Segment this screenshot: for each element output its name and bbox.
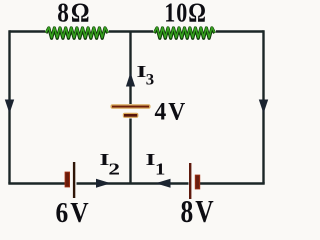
battery B3 4V short plate	[123, 113, 139, 118]
current arrow I3 (up)	[126, 73, 135, 87]
label I2	[100, 150, 110, 169]
label 4V	[155, 98, 188, 126]
battery B1 6V long plate	[73, 162, 75, 198]
wire bottom-right segment	[200, 182, 265, 184]
current arrow I2 (right)	[96, 179, 111, 188]
label 8V	[181, 196, 216, 230]
svg-text:4V: 4V	[155, 98, 188, 126]
label 10 ohm	[164, 0, 206, 28]
wire middle vertical upper	[129, 32, 131, 105]
battery B1 6V short plate	[65, 172, 70, 187]
svg-text:8Ω: 8Ω	[57, 0, 91, 28]
wire bottom-left segment	[8, 182, 65, 184]
wire top-middle segment	[109, 30, 153, 32]
resistor R1 8ohm zigzag	[46, 27, 108, 38]
label I3	[137, 62, 147, 81]
svg-text:3: 3	[146, 70, 154, 89]
svg-text:8V: 8V	[181, 196, 216, 228]
wire top-right segment	[216, 30, 264, 32]
battery B2 8V short plate	[195, 175, 200, 189]
label 8 ohm	[57, 0, 91, 28]
wire left vertical	[8, 30, 10, 183]
wire right vertical	[262, 30, 264, 183]
label 6V	[56, 197, 91, 229]
current arrow left branch (down)	[5, 100, 14, 114]
battery B3 4V long plate	[111, 104, 151, 108]
resistor R2 10ohm zigzag	[154, 27, 214, 38]
svg-text:6V: 6V	[56, 197, 91, 228]
label I1	[146, 150, 156, 169]
svg-text:1: 1	[155, 160, 165, 179]
wire top-left segment	[10, 30, 46, 32]
current arrow right branch (down)	[259, 100, 268, 114]
wire middle vertical lower	[129, 119, 131, 184]
svg-text:2: 2	[108, 160, 120, 178]
wire bottom-middle segment	[77, 182, 189, 184]
current arrow I1 (left)	[156, 179, 171, 188]
battery B2 8V long plate	[189, 163, 191, 199]
svg-text:I: I	[146, 150, 156, 169]
svg-text:10Ω: 10Ω	[164, 0, 206, 28]
